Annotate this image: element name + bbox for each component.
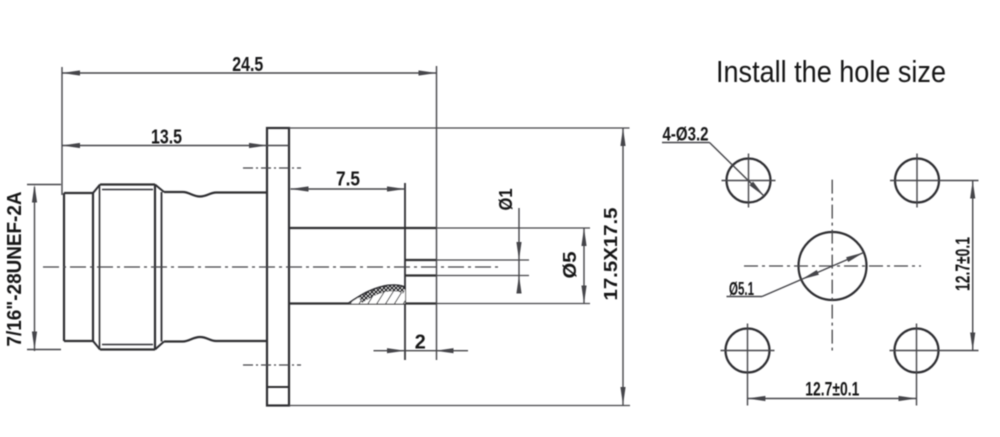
dim 12.7 bottom	[747, 398, 916, 400]
svg-text:24.5: 24.5	[232, 54, 263, 76]
hex coupling nut with chamfers	[92, 193, 94, 341]
dim diameter 1 (pin)	[437, 259, 529, 261]
svg-text:Ø1: Ø1	[496, 189, 516, 211]
svg-text:7.5: 7.5	[336, 169, 360, 191]
svg-text:2: 2	[415, 332, 426, 354]
body mid section with relief wave	[164, 192, 267, 197]
front body barrel	[289, 227, 436, 229]
svg-text:17.5X17.5: 17.5X17.5	[600, 208, 621, 301]
hole top-right	[895, 159, 939, 203]
hole bottom-left	[726, 329, 770, 373]
main center line	[43, 266, 498, 268]
thread dim 7/16-28UNEF-2A	[27, 184, 61, 186]
svg-text:12.7±0.1: 12.7±0.1	[953, 237, 975, 291]
dim 17.5X17.5 (flange)	[289, 127, 630, 129]
center hole	[799, 232, 867, 300]
dielectric face	[404, 183, 406, 360]
svg-text:13.5: 13.5	[151, 127, 182, 149]
flange mounting hole center marks	[243, 167, 301, 169]
svg-text:Ø5: Ø5	[560, 252, 580, 279]
dim 13.5	[62, 145, 289, 147]
dim diameter 5 (barrel)	[437, 227, 590, 229]
svg-text:Install the hole size: Install the hole size	[716, 54, 946, 89]
dim 12.7 right	[972, 181, 974, 351]
hole bottom-right	[895, 329, 939, 373]
dim 24.5	[61, 67, 63, 195]
dim 2	[374, 350, 469, 352]
svg-text:7/16ʺ-28UNEF-2A: 7/16ʺ-28UNEF-2A	[4, 192, 26, 347]
square flange (edge view)	[267, 128, 289, 406]
center hole crosshair	[744, 265, 921, 267]
svg-text:12.7±0.1: 12.7±0.1	[805, 380, 859, 401]
center contact pin	[405, 259, 437, 261]
solder hatch wedge	[348, 285, 405, 304]
hole top-left	[727, 159, 771, 203]
dim 7.5	[291, 188, 406, 190]
connector back nut (left cylinder)	[63, 193, 65, 341]
